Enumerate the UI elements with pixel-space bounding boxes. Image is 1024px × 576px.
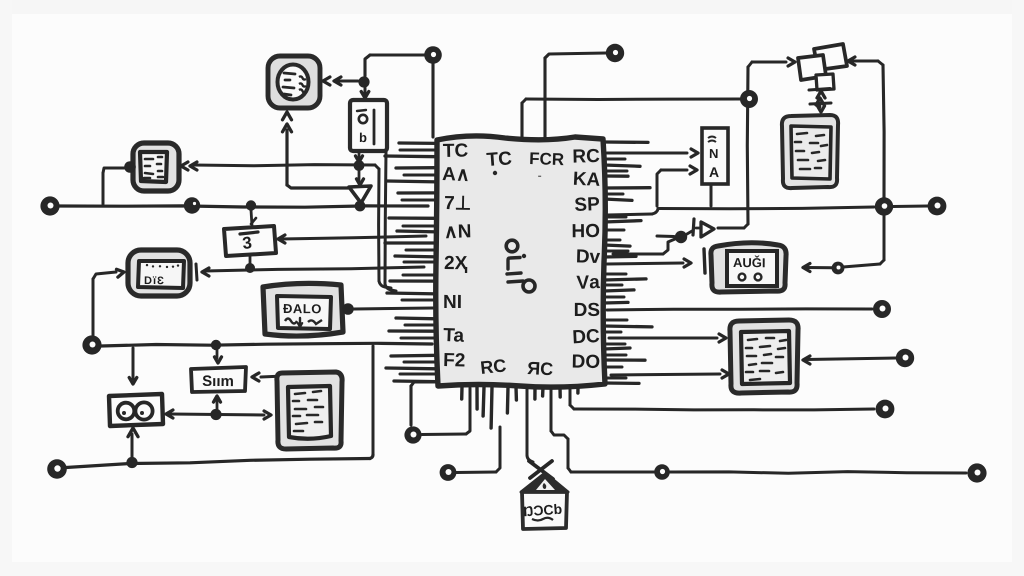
wire chip pin x570 to node H <box>570 387 874 410</box>
svg-text:7⊥: 7⊥ <box>444 193 472 215</box>
svg-text:KA: KA <box>572 169 601 191</box>
display DS3 <box>730 320 798 393</box>
arrow switch S1 to junction J8 <box>356 152 363 162</box>
wire U4 to chip pins <box>354 308 433 309</box>
wire main bus <box>59 206 428 207</box>
svg-text:TC: TC <box>486 148 513 171</box>
arrow chip to ENA pin A <box>607 149 698 157</box>
junction J13 on U4 right <box>342 303 354 315</box>
svg-text:DïƐ: DïƐ <box>144 275 165 287</box>
node M (terminal) <box>896 349 914 367</box>
node K (4-way junction) <box>875 197 893 215</box>
wire into U3 right with tick arrow <box>196 264 424 280</box>
svg-text:NI: NI <box>443 292 462 313</box>
wire chip corner to node D <box>411 382 436 425</box>
wire node J11 vertical to connector arrow <box>848 57 884 198</box>
node T2 (top terminal) <box>606 44 624 62</box>
junction J10 <box>832 262 845 275</box>
junction J2 <box>246 200 256 210</box>
svg-text:A∧: A∧ <box>442 164 470 186</box>
svg-text:DS: DS <box>574 300 600 321</box>
box FB1 <box>224 226 276 256</box>
node H (terminal) <box>876 400 895 419</box>
node F (junction donut) <box>654 464 670 480</box>
svg-text:Sıım: Sıım <box>202 373 234 390</box>
svg-text:F2: F2 <box>443 350 466 372</box>
svg-text:A: A <box>709 164 719 180</box>
junction J11 <box>740 90 758 108</box>
arrow J8 into inverter T1 <box>357 169 364 185</box>
link arrows X1 to DS2 <box>816 98 824 107</box>
arrow from node B into U3 <box>93 269 124 337</box>
speaker U2 <box>268 56 320 108</box>
display U4 DALO <box>263 283 343 336</box>
svg-text:N: N <box>709 146 718 161</box>
wire top pin to node T2 <box>545 53 606 139</box>
display U8 AUGI <box>711 243 786 292</box>
IC U1 <box>385 136 652 428</box>
node A (left main terminal) <box>40 196 59 215</box>
wire chip pin via corner to bottom bus right <box>551 387 654 472</box>
box U5 Sum <box>191 367 246 392</box>
wire branch up to ENA pin B <box>657 166 697 206</box>
arrow into FB1 right <box>278 235 426 243</box>
wire chip lower to J12 <box>613 239 675 254</box>
inverter T1 (down triangle) <box>349 186 371 203</box>
junction J8 <box>354 160 365 171</box>
junction J-T1 on main bus <box>355 201 366 212</box>
wire ENA bottom stub <box>710 184 713 206</box>
wire chip to J12 <box>657 235 674 239</box>
svg-text:RC: RC <box>572 146 600 168</box>
junction J12 <box>675 231 687 243</box>
node D (terminal) <box>404 426 421 443</box>
wire node D to bottom pin <box>422 388 470 435</box>
svg-text:b: b <box>359 130 367 145</box>
svg-text:DC: DC <box>572 326 601 348</box>
wire display D4 into U5 <box>252 373 284 381</box>
svg-text:HO: HO <box>571 221 600 242</box>
junction J1 <box>184 197 200 213</box>
junction J5 on bottom bus <box>126 457 137 468</box>
svg-text:ŊƆCb: ŊƆCb <box>523 501 563 520</box>
wire node E to long bottom pin <box>456 427 500 473</box>
module M1 NCD beacon <box>521 461 568 529</box>
node I (terminal) <box>873 300 891 318</box>
wire vertical V1 from Ta bus to bottom bus <box>372 346 375 455</box>
svg-text:SP: SP <box>574 194 600 216</box>
arrow node M into DS3 right <box>803 356 896 364</box>
wire J7 to speaker with double arrow <box>323 77 358 85</box>
junction J4 <box>211 340 221 350</box>
node G (bottom-right terminal) <box>967 463 986 482</box>
wire top pin x522 to junction J11 <box>522 99 742 139</box>
wire chip to U8 tick arrow <box>607 249 705 273</box>
wire chip pin to module M1 <box>527 387 533 462</box>
arrow J7 into switch S1 <box>361 87 369 98</box>
node E (terminal) <box>440 464 457 481</box>
wire J9 down to main bus <box>103 168 125 204</box>
svg-text:TC: TC <box>443 140 469 162</box>
junction J9 on DS1 left <box>124 161 136 173</box>
svg-text:Ta: Ta <box>443 325 465 347</box>
arrow J4 into Sum box <box>215 349 222 363</box>
svg-text:FCR: FCR <box>529 149 565 169</box>
svg-text:DO: DO <box>571 352 600 373</box>
node B (left terminal y345) <box>82 335 101 354</box>
wire node K down to AUGI arrow <box>803 215 884 272</box>
display U3 DIG <box>128 250 190 296</box>
svg-text:3: 3 <box>241 233 252 253</box>
arrow from Ta bus down into U6 <box>129 348 137 384</box>
wire DS row to node I <box>607 309 872 310</box>
connector X1 <box>798 44 847 112</box>
svg-text:AUǦI: AUǦI <box>733 255 766 270</box>
box U6 eyes <box>109 394 163 426</box>
svg-text:RC: RC <box>479 355 507 378</box>
display DS1 <box>133 143 179 191</box>
wire Ta bus <box>101 343 432 346</box>
svg-text:Vа: Vа <box>576 272 600 294</box>
arrow chip DC row into DS3 <box>609 334 726 342</box>
display DS4 <box>277 372 342 449</box>
wire node F to node G <box>670 472 966 474</box>
register U7 ENA <box>702 128 728 184</box>
display DS2 <box>782 115 838 188</box>
svg-text:ƉALO: ƉALO <box>283 301 322 316</box>
arrow chip DO row into DS3 <box>611 370 729 378</box>
wire into DS1 with double arrow from bus M <box>181 162 375 170</box>
node C (bottom-left terminal) <box>47 459 67 479</box>
wire bus M drop to pins <box>375 165 391 288</box>
svg-text:2Ҳ: 2Ҳ <box>444 253 468 274</box>
wire right main bus <box>607 207 874 215</box>
up arrow into speaker U2 <box>283 112 353 188</box>
buffer A1 <box>687 219 714 237</box>
wire switch edge drop to pins <box>385 152 396 291</box>
wire U6 to DS4 double arrow <box>166 410 271 419</box>
up arrow under U6 to bottom bus <box>128 428 138 460</box>
stub J2 to box FB1 <box>251 210 256 226</box>
node T1 (top-left terminal) <box>424 46 442 64</box>
wire node K to node L <box>893 205 928 209</box>
junction J7 above switch <box>358 76 369 87</box>
svg-text:∧N: ∧N <box>444 221 472 243</box>
arrow J6 up into U5 <box>214 396 221 411</box>
svg-text:ЯC: ЯC <box>527 358 554 379</box>
wire top pin to node T1 <box>365 55 433 137</box>
switch S1 <box>350 100 387 151</box>
node L (terminal) <box>928 197 947 216</box>
wire bottom-left bus <box>66 455 373 468</box>
svg-text:Dv: Dv <box>576 246 601 268</box>
wire A1 output up to connector X1 <box>718 58 795 228</box>
junction J6 <box>210 409 221 420</box>
junction J3 under FB1 <box>245 256 255 273</box>
